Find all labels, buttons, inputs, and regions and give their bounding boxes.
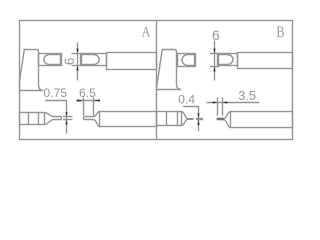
block divider 2 B — [177, 112, 179, 126]
arrow 6.5 left — [77, 99, 83, 101]
svg-text:B: B — [276, 24, 284, 41]
arrow 0.4 top — [197, 113, 199, 118]
needle bottom edge + taper — [84, 120, 100, 127]
blade cap A — [61, 117, 63, 120]
svg-text:6: 6 — [212, 27, 220, 43]
dim 6.5 ext line left — [83, 98, 85, 116]
lower cylinder B — [231, 112, 293, 128]
needle B top edge + taper — [217, 112, 231, 119]
arrow 0.75 bottom — [65, 120, 67, 125]
anvil face D A — [44, 55, 61, 65]
taper A bottom — [45, 120, 62, 125]
block divider 1 B — [166, 112, 168, 126]
dim 0.75 tick bottom — [63, 119, 73, 121]
dim 0.4 leader — [183, 107, 199, 132]
taper A top — [45, 113, 62, 117]
dim 6 tick bottom A — [72, 65, 80, 67]
needle part A right: tip cap — [83, 117, 85, 120]
dim 6.5 ext line right — [93, 98, 95, 116]
dim 3.5 line — [207, 102, 260, 104]
dim 3.5 ext line left — [217, 98, 219, 116]
svg-text:A: A — [142, 25, 151, 41]
dim 6 tick top B — [210, 53, 220, 55]
dim 6 line A — [77, 43, 79, 81]
block divider 2 A — [38, 113, 40, 125]
needle tip dark line B right — [218, 118, 225, 120]
arrow 0.75 top — [65, 112, 67, 117]
taper to point B top — [182, 112, 188, 119]
blade tip line B — [188, 118, 194, 120]
svg-text:0.75: 0.75 — [43, 86, 67, 100]
arrow 6A bottom — [76, 66, 78, 71]
block divider 1 A — [28, 113, 30, 125]
arrow 0.4 bottom — [197, 120, 199, 125]
svg-text:0.4: 0.4 — [178, 92, 195, 106]
dim 0.75 tick top — [63, 116, 73, 118]
anvil bar A — [39, 54, 62, 66]
needle part B right: tip cap — [216, 118, 218, 120]
dim 6.5 line — [76, 100, 100, 102]
barrel cylinder A — [107, 53, 157, 70]
border frame — [20, 21, 293, 140]
lower block A — [20, 113, 45, 125]
needle B bottom edge + taper — [217, 120, 231, 128]
anvil face D B — [182, 55, 195, 66]
arrow 6.5 right — [94, 99, 100, 101]
arrow 3.5 left — [213, 101, 218, 103]
anvil bar B — [178, 54, 196, 67]
barrel cylinder B — [238, 53, 293, 69]
spindle face D A — [82, 55, 100, 65]
taper to point B bottom — [182, 119, 188, 125]
dim 3.5 ext line right — [222, 98, 224, 116]
dim 0.75 leader — [45, 101, 67, 134]
lower cylinder A — [100, 112, 157, 127]
arrow 6A top — [76, 49, 78, 54]
needle top edge + taper — [84, 112, 100, 117]
micrometer frame A — [20, 50, 44, 91]
dim 0.4 tick bottom — [196, 119, 203, 121]
spindle bar B — [218, 54, 238, 66]
spindle bar A — [81, 54, 107, 66]
lower block B — [157, 112, 182, 126]
arrow 6B top — [213, 49, 215, 54]
dim 0.4 tick top — [196, 118, 203, 120]
micrometer frame B — [157, 50, 182, 90]
dim 6 tick top A — [72, 53, 80, 55]
arrow 6B bottom — [213, 67, 215, 72]
dim 6 tick bottom B — [210, 66, 220, 68]
svg-text:3.5: 3.5 — [238, 88, 256, 103]
dim 6 line B — [214, 41, 216, 81]
svg-text:6.5: 6.5 — [79, 86, 96, 100]
svg-text:6: 6 — [62, 58, 77, 66]
panel divider — [156, 21, 158, 140]
spindle face D B — [219, 55, 234, 65]
arrow 3.5 right — [223, 101, 228, 103]
